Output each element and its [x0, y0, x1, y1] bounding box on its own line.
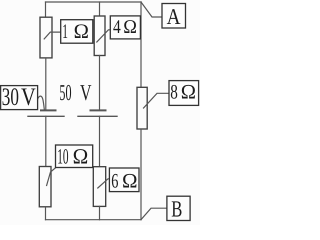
leader line to terminal A — [141, 2, 162, 17]
leader line 8 ohm label — [144, 93, 170, 108]
leader line to terminal B — [141, 208, 167, 220]
wire left mid — [45, 58, 47, 110]
svg-text:A: A — [167, 4, 181, 29]
terminal box A — [162, 4, 186, 29]
battery V2 50V short plate — [91, 109, 106, 111]
wire right bottom — [140, 129, 142, 220]
wire left top — [45, 2, 47, 17]
resistor R5 (6 ohm) — [93, 167, 105, 207]
battery V1 30V short plate — [41, 109, 56, 111]
svg-text:Ω: Ω — [73, 145, 89, 169]
leader line 10 ohm label — [47, 168, 56, 186]
wire top horizontal — [46, 1, 142, 3]
label box 4 ohm — [110, 16, 140, 39]
svg-text:10: 10 — [57, 145, 68, 169]
label box 8 ohm — [169, 81, 199, 106]
wire middle lower — [99, 116, 101, 166]
svg-text:1: 1 — [62, 21, 68, 43]
resistor R3 (8 ohm) — [137, 87, 147, 129]
svg-text:V: V — [80, 80, 92, 105]
svg-text:Ω: Ω — [74, 21, 89, 43]
svg-text:Ω: Ω — [123, 17, 137, 38]
label box 30V source — [1, 86, 38, 110]
label box 6 ohm — [109, 168, 139, 192]
svg-text:Ω: Ω — [181, 81, 196, 103]
leader line 4 ohm label — [97, 30, 111, 42]
svg-text:30: 30 — [2, 84, 19, 111]
leader line 6 ohm label — [98, 179, 110, 188]
wire left lower — [45, 116, 47, 166]
resistor R1 (1 ohm) — [40, 17, 52, 58]
resistor R4 (10 ohm) — [39, 167, 51, 207]
leader line 1 ohm label — [44, 32, 61, 39]
svg-text:50: 50 — [59, 80, 71, 105]
battery V2 50V long plate — [78, 115, 117, 117]
svg-text:4: 4 — [113, 17, 121, 38]
label box 1 ohm — [61, 20, 93, 44]
svg-text:B: B — [171, 195, 182, 221]
svg-text:Ω: Ω — [122, 170, 138, 192]
wire middle top — [99, 2, 101, 16]
wire middle mid — [99, 56, 101, 110]
leader curve 30V label — [38, 96, 45, 110]
wire left bottom — [45, 207, 47, 220]
wire middle bottom — [99, 206, 101, 219]
resistor R2 (4 ohm) — [94, 16, 105, 56]
terminal box B — [167, 196, 190, 220]
wire right top — [140, 2, 142, 87]
battery V1 30V long plate — [28, 115, 64, 117]
label box 10 ohm — [56, 145, 93, 168]
svg-text:6: 6 — [111, 170, 118, 192]
svg-text:8: 8 — [170, 81, 178, 103]
wire bottom horizontal — [46, 219, 142, 221]
svg-text:V: V — [21, 84, 36, 111]
